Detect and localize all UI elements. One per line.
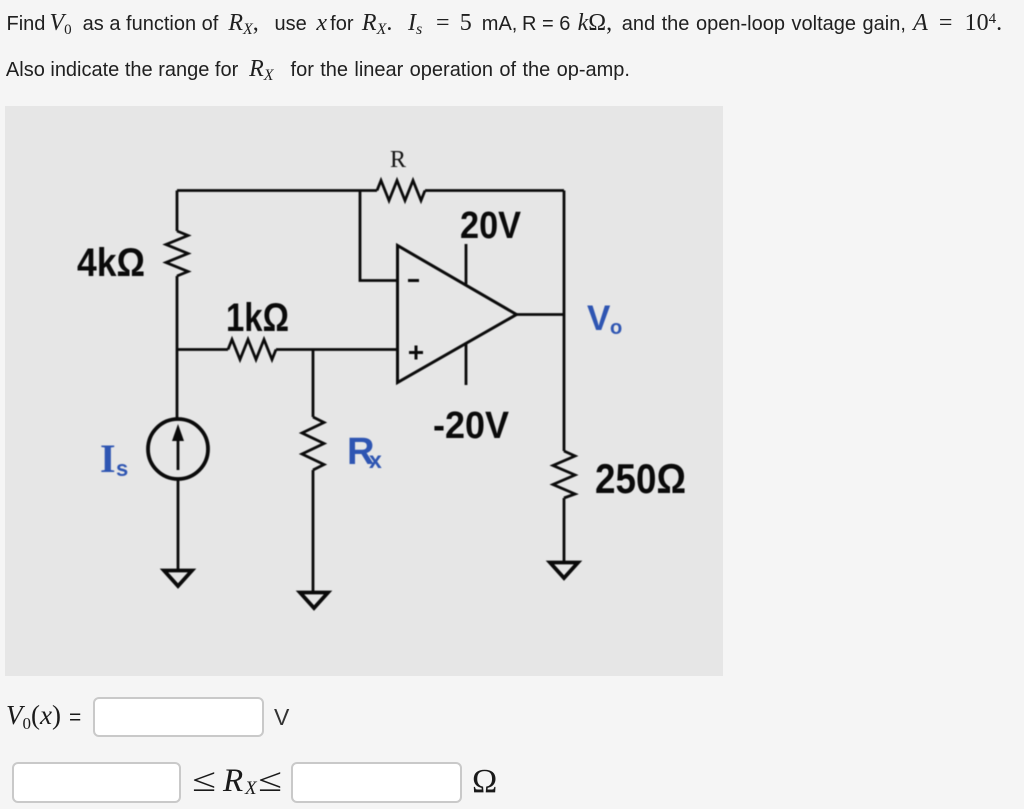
op-amp minus sign bbox=[408, 279, 419, 282]
wire below current source bbox=[177, 479, 180, 570]
answer label V0(x)= bbox=[6, 700, 81, 734]
answer input box 3 bbox=[291, 762, 462, 803]
wire left vertical upper bbox=[176, 191, 179, 232]
svg-text:20V: 20V bbox=[460, 205, 522, 247]
circuit panel background bbox=[5, 106, 723, 676]
svg-text:o: o bbox=[610, 317, 622, 339]
svg-text:s: s bbox=[116, 456, 128, 481]
wire left vertical lower bbox=[176, 276, 179, 419]
svg-text:I: I bbox=[100, 436, 116, 481]
ground right bbox=[550, 563, 578, 579]
resistor 4k ohm bbox=[166, 231, 188, 276]
answer input box 1 bbox=[93, 697, 264, 737]
svg-text:x: x bbox=[369, 447, 382, 473]
ground below current source bbox=[164, 571, 192, 587]
op-amp U1 bbox=[398, 246, 517, 383]
resistor 1k ohm bbox=[228, 340, 276, 360]
output wire bbox=[517, 313, 565, 316]
wire top-left horizontal bbox=[177, 189, 377, 192]
negative supply pin bbox=[465, 344, 468, 385]
unit V bbox=[274, 704, 289, 731]
svg-text:1kΩ: 1kΩ bbox=[226, 296, 289, 340]
positive supply pin bbox=[465, 244, 468, 284]
wire top-right horizontal bbox=[425, 189, 564, 192]
current source Is bbox=[148, 419, 208, 479]
wire below 250 ohm bbox=[563, 498, 566, 562]
svg-text:R: R bbox=[390, 147, 406, 173]
wire Rx branch upper bbox=[312, 350, 315, 418]
answer input box 2 bbox=[12, 762, 181, 803]
svg-text:V: V bbox=[587, 299, 611, 338]
feedback tap wire to inverting input bbox=[360, 191, 397, 281]
wire 1k right segment to non-inverting input bbox=[276, 348, 397, 351]
ground Rx bbox=[300, 593, 328, 609]
wire Rx branch lower bbox=[312, 470, 315, 592]
wire right vertical bbox=[563, 191, 566, 452]
resistor Rx bbox=[302, 417, 324, 470]
resistor 250 ohm bbox=[553, 451, 575, 498]
resistor R (feedback) bbox=[377, 181, 425, 201]
op-amp plus sign bbox=[409, 351, 423, 354]
problem statement line 2 bbox=[7, 57, 630, 88]
range label bbox=[194, 763, 294, 803]
wire 1k left segment bbox=[177, 348, 228, 351]
svg-text:-20V: -20V bbox=[433, 405, 510, 447]
svg-text:250Ω: 250Ω bbox=[595, 455, 686, 502]
svg-text:4kΩ: 4kΩ bbox=[77, 241, 145, 285]
unit ohm bbox=[472, 763, 497, 801]
problem statement line 1 bbox=[7, 7, 1002, 43]
